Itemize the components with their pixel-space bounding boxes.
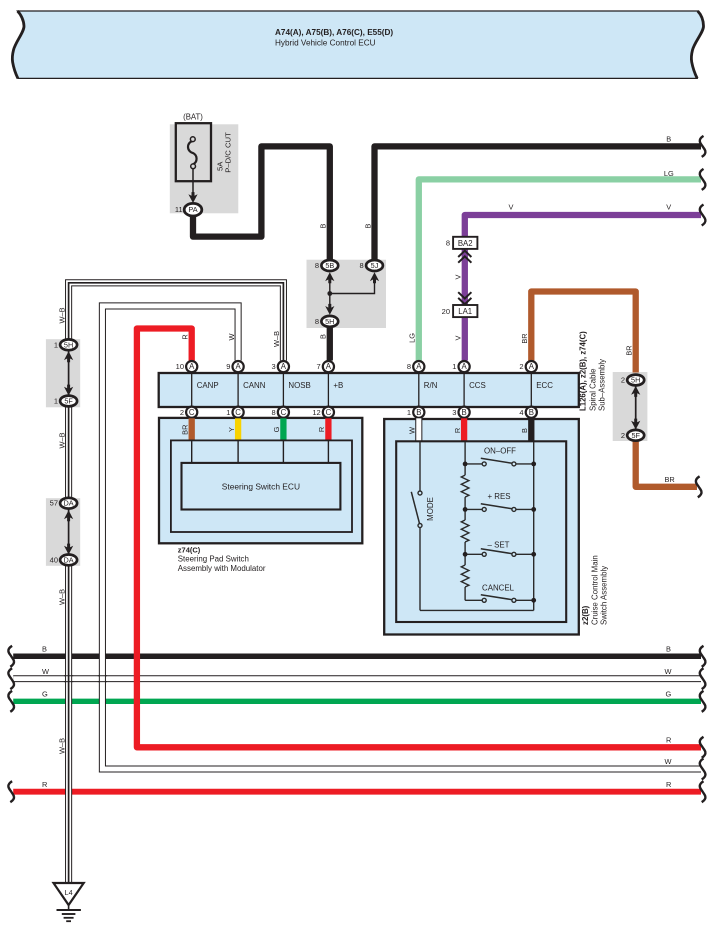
- wire V from right edge through BA2/LA1 to CCS: [454, 203, 706, 361]
- wire B from connector 5H down to +B: [319, 328, 330, 361]
- pin 10 A: [176, 361, 198, 372]
- connector 5H pin 1: [54, 339, 77, 350]
- svg-text:1: 1: [54, 340, 58, 349]
- pin 4 B: [519, 407, 536, 418]
- svg-text:Steering Pad Switch: Steering Pad Switch: [178, 555, 249, 564]
- svg-text:BA2: BA2: [458, 239, 473, 248]
- wire junction lines: [330, 283, 375, 306]
- arrow down into 5F: [64, 385, 73, 396]
- svg-text:G: G: [42, 690, 48, 699]
- svg-text:(BAT): (BAT): [183, 113, 203, 122]
- svg-text:Switch Assembly: Switch Assembly: [599, 566, 608, 625]
- svg-text:A: A: [461, 362, 467, 371]
- svg-text:R: R: [42, 780, 47, 789]
- wire BR from ECC up and over to connector 5H right: [520, 292, 636, 373]
- ECU connector strip A74/A75/A76: [159, 373, 579, 407]
- pin 8 C: [272, 407, 289, 418]
- svg-text:1: 1: [407, 408, 411, 417]
- label L126(A), z2(B), z74(C) Spiral Cable Sub-Assembly: [579, 331, 607, 411]
- svg-text:CCS: CCS: [469, 381, 486, 390]
- svg-text:3: 3: [272, 362, 276, 371]
- svg-text:R/N: R/N: [424, 381, 438, 390]
- svg-text:9: 9: [226, 362, 230, 371]
- svg-text:PA: PA: [188, 205, 197, 214]
- svg-text:W–B: W–B: [57, 589, 66, 605]
- svg-text:+ RES: + RES: [488, 492, 511, 501]
- svg-text:A74(A), A75(B), A76(C), E55(D): A74(A), A75(B), A76(C), E55(D): [275, 28, 393, 37]
- arrow into PA: [188, 192, 197, 203]
- wire LG from right edge to R/N: [408, 169, 706, 361]
- wires to steering switch ECU: [192, 441, 329, 463]
- svg-text:W: W: [42, 667, 49, 676]
- connector 5F pin 1: [54, 396, 77, 407]
- svg-text:1: 1: [452, 362, 456, 371]
- svg-text:Assembly with Modulator: Assembly with Modulator: [178, 564, 266, 573]
- svg-text:A: A: [189, 362, 195, 371]
- svg-text:BR: BR: [665, 475, 675, 484]
- svg-text:8: 8: [315, 261, 319, 270]
- svg-text:NOSB: NOSB: [288, 381, 310, 390]
- svg-text:W: W: [227, 333, 236, 340]
- svg-text:L126(A), z2(B), z74(C): L126(A), z2(B), z74(C): [579, 331, 588, 411]
- svg-text:B: B: [529, 408, 534, 417]
- pin 7 A: [317, 361, 334, 372]
- switch + RES: [463, 492, 536, 512]
- svg-text:7: 7: [317, 362, 321, 371]
- svg-text:A: A: [235, 362, 241, 371]
- wire R stub pin 3B: [453, 418, 464, 441]
- svg-text:DA: DA: [64, 499, 74, 508]
- MODE switch rail: [419, 442, 421, 610]
- double chevron up below BA2: [458, 251, 471, 263]
- svg-text:z74(C): z74(C): [178, 546, 201, 555]
- svg-text:1: 1: [54, 397, 58, 406]
- svg-text:5J: 5J: [371, 261, 379, 270]
- svg-text:P–D/C CUT: P–D/C CUT: [224, 132, 233, 173]
- svg-text:B: B: [42, 645, 47, 654]
- svg-text:5F: 5F: [631, 431, 640, 440]
- svg-text:20: 20: [442, 307, 450, 316]
- box Steering Switch ECU: [182, 463, 341, 510]
- svg-text:LG: LG: [664, 169, 674, 178]
- arrow down into DA 40: [64, 544, 73, 555]
- svg-text:B: B: [363, 223, 372, 228]
- wire R bottom row: [8, 780, 705, 802]
- svg-text:DA: DA: [64, 555, 74, 564]
- svg-text:A: A: [416, 362, 422, 371]
- svg-text:8: 8: [407, 362, 411, 371]
- svg-text:CANCEL: CANCEL: [482, 584, 515, 593]
- MODE switch contacts: [418, 491, 422, 495]
- strip pin dividers: [192, 373, 532, 407]
- ground L4: [54, 883, 84, 921]
- wire G bottom row: [8, 690, 705, 712]
- svg-text:ON–OFF: ON–OFF: [484, 447, 516, 456]
- svg-text:CANN: CANN: [243, 381, 266, 390]
- gray box (BAT) fuse area: [170, 124, 239, 213]
- pin 8 A: [407, 361, 424, 372]
- svg-text:1: 1: [226, 408, 230, 417]
- wire W from CANN: up, left, down, right to edge: [102, 306, 705, 780]
- svg-text:R: R: [666, 780, 671, 789]
- pin 12 C: [312, 407, 334, 418]
- pin 1 A: [452, 361, 469, 372]
- pin 2 A: [519, 361, 536, 372]
- gray box inline connector DA: [46, 498, 80, 566]
- svg-text:B: B: [520, 428, 529, 433]
- svg-text:57: 57: [50, 499, 58, 508]
- connector PA pin 11: [175, 203, 202, 216]
- arrow down into 5F right: [631, 419, 640, 430]
- MODE switch lever: [411, 492, 419, 525]
- connector 5H pin 2: [621, 375, 644, 386]
- svg-text:A: A: [529, 362, 535, 371]
- svg-text:5B: 5B: [325, 261, 334, 270]
- wire BR stub pin 2C: [181, 418, 192, 441]
- svg-text:12: 12: [312, 408, 320, 417]
- switch ON-OFF: [463, 447, 536, 467]
- bottom wire: [420, 609, 534, 611]
- svg-text:BR: BR: [181, 425, 190, 435]
- svg-text:V: V: [454, 274, 463, 279]
- svg-text:V: V: [454, 335, 463, 340]
- connector BA2 pin 8: [446, 237, 478, 249]
- pin 2 C: [180, 407, 197, 418]
- svg-text:2: 2: [621, 431, 625, 440]
- svg-text:G: G: [666, 690, 672, 699]
- svg-text:2: 2: [621, 376, 625, 385]
- inner box: [171, 440, 352, 532]
- wire G stub pin 8C: [272, 418, 283, 441]
- fuse 5A P-D/C CUT: [176, 123, 233, 181]
- svg-text:CANP: CANP: [197, 381, 219, 390]
- wire B from right edge to connector 5J: [363, 134, 705, 259]
- inner box: [396, 441, 566, 622]
- svg-text:B: B: [319, 223, 328, 228]
- arrow into 5H middle: [325, 304, 334, 315]
- arrow up into DA 57: [64, 510, 73, 521]
- label z74(C) Steering Pad Switch Assembly with Modulator: [178, 546, 266, 573]
- wire between DA and DA: [68, 508, 70, 556]
- connector 5B pin 8: [315, 260, 338, 271]
- svg-text:W–B: W–B: [272, 331, 281, 347]
- svg-text:BR: BR: [520, 333, 529, 343]
- pin circles C/B row: [180, 407, 537, 418]
- svg-text:B: B: [416, 408, 421, 417]
- svg-text:10: 10: [176, 362, 184, 371]
- svg-text:R: R: [666, 736, 671, 745]
- svg-text:B: B: [666, 134, 671, 143]
- svg-text:Spiral Cable: Spiral Cable: [589, 369, 598, 411]
- svg-text:5H: 5H: [631, 376, 640, 385]
- label z2(B) Cruise Control Main Switch Assembly: [581, 555, 608, 625]
- pin 3 A: [272, 361, 289, 372]
- wire fuse to PA: [192, 169, 194, 195]
- svg-text:W: W: [665, 757, 672, 766]
- svg-text:5H: 5H: [325, 317, 334, 326]
- svg-text:40: 40: [50, 555, 58, 564]
- strip terminal names: [197, 381, 554, 390]
- box z2(B) Cruise Control Main Switch Assembly: [384, 419, 579, 635]
- pin circles A row: [176, 361, 537, 372]
- svg-text:ECC: ECC: [536, 381, 553, 390]
- wire between 5H and 5F: [68, 349, 70, 397]
- svg-text:B: B: [461, 408, 466, 417]
- svg-text:Sub–Assembly: Sub–Assembly: [598, 359, 607, 411]
- svg-text:W–B: W–B: [57, 307, 66, 323]
- wire R from CANP: up, left, down, right to edge: [137, 329, 706, 758]
- gray box inline connector 5H/5F left: [46, 339, 80, 407]
- svg-text:MODE: MODE: [426, 497, 435, 521]
- svg-text:BR: BR: [625, 345, 634, 355]
- svg-text:R: R: [317, 427, 326, 432]
- svg-text:B: B: [319, 334, 328, 339]
- svg-text:R: R: [181, 334, 190, 339]
- wire R stub pin 12C: [317, 418, 328, 441]
- wire W bottom row: [8, 667, 705, 689]
- svg-text:8: 8: [272, 408, 276, 417]
- wire Y stub pin 1C: [227, 418, 238, 441]
- svg-text:A: A: [326, 362, 332, 371]
- connector 5H pin 8: [315, 316, 338, 327]
- wire W stub pin 1B: [408, 418, 419, 441]
- pin 3 B: [452, 407, 469, 418]
- svg-text:– SET: – SET: [488, 541, 510, 550]
- svg-text:+B: +B: [333, 381, 343, 390]
- svg-text:2: 2: [519, 362, 523, 371]
- svg-text:W–B: W–B: [57, 432, 66, 448]
- connector DA pin 40: [50, 555, 77, 566]
- svg-text:C: C: [326, 408, 332, 417]
- arrow into 5J: [370, 272, 379, 283]
- svg-text:4: 4: [519, 408, 523, 417]
- svg-text:Y: Y: [227, 427, 236, 432]
- svg-text:L4: L4: [65, 888, 73, 897]
- connector LA1 pin 20: [442, 305, 478, 317]
- svg-text:8: 8: [360, 261, 364, 270]
- svg-text:V: V: [509, 203, 514, 212]
- switch - SET: [463, 541, 536, 557]
- svg-text:8: 8: [446, 239, 450, 248]
- switch CANCEL: [465, 584, 536, 603]
- svg-text:2: 2: [180, 408, 184, 417]
- connector 5J pin 8: [360, 260, 383, 271]
- banner Hybrid Vehicle Control ECU: [12, 11, 703, 78]
- svg-text:3: 3: [452, 408, 456, 417]
- svg-text:z2(B): z2(B): [581, 605, 590, 625]
- wire BR from connector 5F right to right edge: [636, 441, 702, 498]
- arrow up into 5H: [64, 351, 73, 362]
- svg-text:5H: 5H: [64, 340, 73, 349]
- svg-text:LG: LG: [408, 333, 417, 343]
- svg-text:G: G: [272, 426, 281, 432]
- node junction dot: [327, 291, 332, 296]
- svg-text:C: C: [189, 408, 195, 417]
- double chevron down above LA1: [458, 292, 471, 304]
- pin 1 C: [226, 407, 243, 418]
- wire W-B segment below DA to ground: [57, 565, 68, 883]
- wire B from fuse PA to connector 5B: [193, 146, 330, 259]
- arrow into 5B: [325, 272, 334, 283]
- svg-text:W: W: [665, 667, 672, 676]
- resistor rail with resistors: [461, 442, 469, 600]
- svg-text:W–B: W–B: [57, 738, 66, 754]
- svg-text:V: V: [666, 203, 671, 212]
- right rail B: [533, 442, 535, 610]
- box z74(C) Steering Pad Switch Assembly: [159, 418, 362, 543]
- svg-text:W: W: [408, 427, 417, 434]
- svg-text:R: R: [453, 428, 462, 433]
- gray box inline connector 5H/5F right: [613, 372, 648, 441]
- wire W-B from NOSB: up, left, down to ground (segment above connector 5H): [57, 283, 283, 361]
- svg-text:11: 11: [175, 205, 183, 214]
- svg-text:C: C: [235, 408, 241, 417]
- svg-text:LA1: LA1: [458, 307, 472, 316]
- svg-text:Cruise Control Main: Cruise Control Main: [590, 555, 599, 625]
- svg-text:B: B: [666, 645, 671, 654]
- connector 5F pin 2: [621, 430, 644, 441]
- wire W row crossing marks: [64, 676, 107, 682]
- gray box junction 5B/5J/5H: [307, 260, 387, 328]
- wire W-B segment between 5F and DA: [57, 406, 68, 499]
- arrow up into 5H right: [631, 386, 640, 397]
- pin 9 A: [226, 361, 243, 372]
- svg-text:C: C: [281, 408, 287, 417]
- svg-text:5F: 5F: [64, 397, 73, 406]
- svg-text:Steering Switch ECU: Steering Switch ECU: [222, 482, 300, 492]
- svg-text:8: 8: [315, 317, 319, 326]
- pin 1 B: [407, 407, 424, 418]
- wire B bottom row: [8, 645, 705, 667]
- connector DA pin 57: [50, 498, 77, 509]
- svg-text:Hybrid Vehicle Control ECU: Hybrid Vehicle Control ECU: [275, 38, 376, 47]
- svg-text:A: A: [281, 362, 287, 371]
- wire between 5H and 5F right: [635, 384, 637, 431]
- wire B stub pin 4B: [520, 418, 531, 441]
